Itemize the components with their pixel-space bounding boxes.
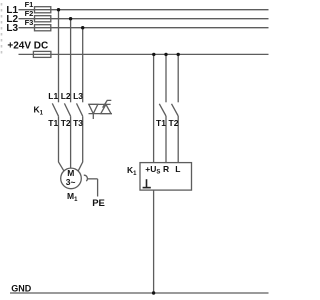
wire box to GND [153, 190, 155, 293]
fuse F2 [35, 16, 51, 22]
wire pole 3 lower [78, 116, 83, 171]
contactor K1 pole 2 blade [64, 103, 70, 116]
svg-text:3~: 3~ [66, 177, 76, 187]
wire GND bus [10, 292, 269, 294]
wire L1 bus [19, 9, 269, 11]
node dot L2/pole2 [69, 17, 72, 20]
svg-text:T1: T1 [156, 118, 166, 128]
contactor K1 pole 3 blade [77, 103, 83, 116]
triac symbol top line [89, 103, 111, 105]
ground symbol in box [146, 179, 148, 187]
wire drop L1 to K1 pole 1 [58, 10, 60, 103]
svg-text:PE: PE [92, 198, 105, 209]
wire L3 bus [19, 27, 269, 29]
triac symbol bottom line [89, 113, 113, 115]
node dot L1/pole1 [57, 8, 60, 11]
wire drop L2 to K1 pole 2 [70, 19, 72, 103]
triac left gate tail [92, 114, 94, 119]
triac right triangle [101, 104, 111, 113]
wire drop L3 to K1 pole 3 [82, 28, 84, 103]
triac left triangle [89, 104, 98, 113]
node dot GND junction [152, 291, 155, 294]
motor PE terminal arc [84, 175, 88, 181]
fuse F1 [35, 7, 51, 13]
wire PE horizontal [87, 178, 97, 180]
svg-text:L1: L1 [48, 91, 58, 101]
wire pole 1 lower [59, 116, 64, 171]
wire contact T2 to box [177, 116, 179, 163]
node dot 24V/+Us [152, 53, 155, 56]
device K1 box [140, 163, 192, 191]
wire PE vertical [97, 179, 99, 197]
svg-text:T1: T1 [48, 118, 58, 128]
wire +24V DC bus [19, 53, 269, 55]
svg-text:T2: T2 [169, 118, 179, 128]
motor M1 circle [61, 168, 82, 189]
wire L2 bus [19, 18, 269, 20]
svg-text:L3: L3 [73, 91, 83, 101]
aux contact T1 blade [159, 104, 166, 116]
svg-text:L2: L2 [61, 91, 71, 101]
fuse F3 [35, 25, 51, 31]
wire pole 2 lower [70, 116, 72, 168]
contactor K1 pole 1 blade [52, 103, 58, 116]
svg-text:L: L [175, 164, 180, 174]
wire drop 24V to +Us [153, 54, 155, 162]
svg-text:GND: GND [11, 283, 32, 293]
node dot 24V/T1 [164, 53, 167, 56]
svg-text:F2: F2 [25, 9, 34, 18]
svg-text:T2: T2 [61, 118, 71, 128]
node dot L3/pole3 [81, 26, 84, 29]
svg-text:+24V DC: +24V DC [7, 40, 48, 51]
svg-text:R: R [163, 164, 169, 174]
edge artifact dashes [1, 3, 3, 55]
svg-text:L3: L3 [6, 23, 18, 34]
aux contact T2 blade [172, 104, 179, 116]
wire drop 24V to contact T2 [177, 54, 179, 102]
svg-text:T3: T3 [73, 118, 83, 128]
node dot 24V/T2 [177, 53, 180, 56]
triac right gate [103, 100, 112, 107]
svg-text:F1: F1 [25, 0, 34, 9]
wire contact T1 to box [165, 116, 167, 163]
fuse F4 24V [33, 51, 51, 57]
svg-text:F3: F3 [25, 18, 34, 27]
wire drop 24V to contact T1 [165, 54, 167, 102]
